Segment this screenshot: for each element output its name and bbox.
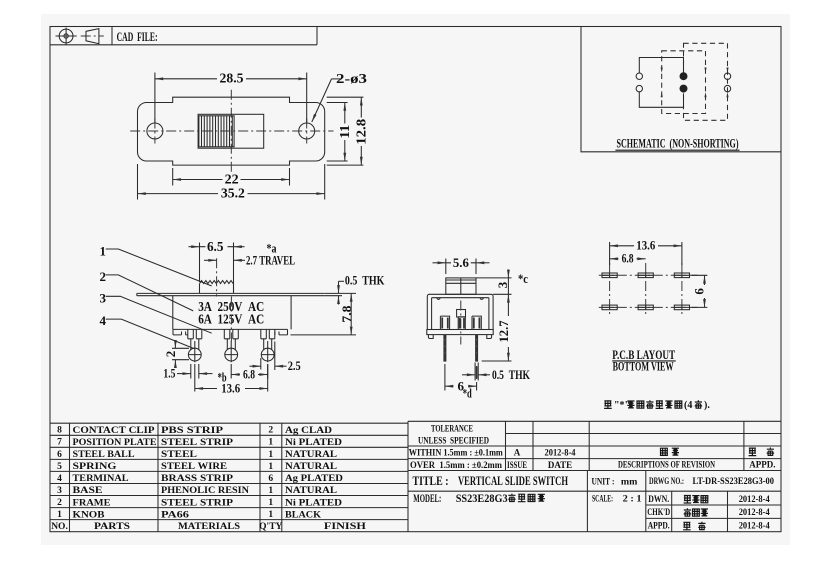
pad r2c2 [638, 305, 653, 310]
dim 13.6 pads [610, 242, 682, 265]
pad r2c3 [674, 305, 689, 310]
pin left [443, 335, 446, 362]
knob centerline [216, 258, 218, 296]
terminal contacts open right [724, 73, 730, 79]
svg-text:DRWG NO.:: DRWG NO.: [649, 476, 684, 486]
svg-text:2012-8-4: 2012-8-4 [739, 507, 770, 517]
svg-text:TOLERANCE: TOLERANCE [431, 424, 473, 434]
svg-text:2: 2 [100, 269, 107, 284]
svg-text:BOTTOM VIEW: BOTTOM VIEW [613, 359, 674, 373]
frame flange [137, 293, 324, 295]
svg-text:1: 1 [268, 486, 273, 496]
svg-text:Q'TY: Q'TY [259, 522, 282, 532]
svg-text:12.8: 12.8 [354, 119, 369, 145]
svg-text:SPRING: SPRING [73, 462, 118, 472]
projection target symbol [59, 29, 73, 43]
dim 12.8 [327, 97, 364, 165]
terminal 3 lug [264, 339, 272, 350]
terminal contacts open left [636, 73, 642, 79]
svg-text:13.6: 13.6 [221, 381, 240, 396]
wire top [639, 58, 683, 74]
svg-text:Ag PLATED: Ag PLATED [285, 474, 343, 484]
note: zhu "*" biaoshi guanjian chicun (4 ge). [604, 400, 612, 408]
svg-text:ISSUE: ISSUE [507, 460, 527, 470]
svg-text:POSITION PLATE: POSITION PLATE [73, 438, 157, 448]
svg-text:VERTICAL SLIDE SWITCH: VERTICAL SLIDE SWITCH [458, 473, 568, 488]
center line [460, 301, 462, 345]
svg-text:DWN.: DWN. [648, 494, 669, 504]
svg-text:1: 1 [268, 462, 273, 472]
pad crossing stubs [602, 273, 690, 310]
dim 5.6 knob [446, 259, 476, 275]
svg-text:(4: (4 [684, 400, 692, 411]
svg-text:MODEL:: MODEL: [413, 491, 441, 505]
revision row: chu ban [661, 448, 668, 455]
svg-text:).: ). [704, 400, 710, 411]
svg-text:1: 1 [268, 498, 273, 508]
svg-text:Ni PLATED: Ni PLATED [285, 498, 342, 508]
dim 6.8 pads [610, 258, 619, 260]
svg-text:WITHIN 1.5mm : ±0.1mm: WITHIN 1.5mm : ±0.1mm [409, 448, 503, 458]
svg-text:Ag CLAD: Ag CLAD [285, 426, 332, 436]
svg-text:DATE: DATE [548, 460, 572, 470]
svg-text:PHENOLIC RESIN: PHENOLIC RESIN [161, 486, 249, 496]
svg-text:NATURAL: NATURAL [285, 462, 337, 472]
pad r1c2 [638, 273, 653, 278]
dim 6 pads [691, 275, 707, 307]
svg-text:UNLESS SPECIFIED: UNLESS SPECIFIED [418, 435, 489, 445]
svg-text:LT-DR-SS23E28G3-00: LT-DR-SS23E28G3-00 [693, 476, 775, 486]
pad r1c3 [674, 273, 689, 278]
svg-text:7.8: 7.8 [339, 305, 354, 323]
terminal 2 root slots and peg [224, 329, 238, 338]
pad r1c1 [602, 273, 617, 278]
svg-text:2: 2 [268, 426, 273, 436]
pad row centerlines [599, 275, 698, 307]
knob position dashed box 1 [662, 51, 706, 114]
frame hook tabs [437, 298, 483, 300]
svg-text:1: 1 [57, 510, 62, 520]
terminal clip middle [458, 317, 465, 330]
svg-text:1.5: 1.5 [163, 366, 175, 381]
CAD FILE title strip [50, 27, 317, 45]
svg-text:7: 7 [57, 438, 62, 448]
svg-text:CONTACT CLIP: CONTACT CLIP [73, 426, 155, 436]
svg-text:STEEL: STEEL [161, 450, 197, 460]
svg-text:3: 3 [495, 281, 510, 288]
svg-text:2-ø3: 2-ø3 [336, 71, 367, 86]
knob side [446, 278, 476, 294]
svg-text:1: 1 [268, 438, 273, 448]
title block grid [408, 421, 781, 518]
dim 0.5 THK flange [324, 293, 356, 295]
svg-text:5: 5 [57, 462, 62, 472]
dim 6.5 knob width [200, 243, 234, 294]
svg-text:*a: *a [267, 241, 277, 256]
svg-text:11: 11 [337, 124, 352, 138]
knob knurl hatch [202, 116, 233, 147]
knob position dashed box 2 [684, 43, 728, 120]
svg-text:4: 4 [100, 313, 107, 328]
body outline [173, 296, 291, 330]
dim 0.5 THK pin [475, 363, 478, 381]
svg-text:SS23E28G3: SS23E28G3 [456, 491, 508, 505]
svg-text:Ni PLATED: Ni PLATED [285, 438, 342, 448]
base side [427, 330, 493, 335]
svg-text:OVER 1.5mm : ±0.2mm: OVER 1.5mm : ±0.2mm [410, 460, 502, 470]
svg-text:PA66: PA66 [161, 510, 189, 520]
svg-text:BASE: BASE [73, 486, 103, 496]
feet [428, 335, 491, 339]
middle centerline lower [230, 297, 232, 342]
dim 12.7 [482, 360, 512, 362]
svg-text:DESCRIPTIONS OF REVISION: DESCRIPTIONS OF REVISION [618, 459, 715, 469]
dim 6 pins [445, 364, 477, 391]
hole centerlines [155, 119, 307, 144]
svg-text:13.6: 13.6 [636, 238, 655, 253]
terminal clip left [440, 316, 449, 329]
dim 35.2 [138, 164, 325, 200]
mounting hole right [299, 123, 315, 139]
slider shaft [457, 310, 466, 318]
drawing frame [50, 27, 781, 532]
svg-text:SCALE:: SCALE: [592, 494, 613, 504]
dim 22 [173, 168, 290, 186]
svg-text:TITLE :: TITLE : [413, 473, 449, 488]
svg-text:2012-8-4: 2012-8-4 [739, 521, 770, 531]
dim 6.8 terminals [231, 364, 268, 379]
svg-text:12.7: 12.7 [496, 320, 511, 342]
knob top view [198, 114, 264, 148]
projection cone symbol [81, 35, 104, 37]
pad column centerlines [610, 263, 682, 317]
svg-text:6.5: 6.5 [207, 239, 224, 254]
svg-text:1: 1 [100, 243, 107, 258]
terminal contacts closed middle [680, 72, 688, 80]
svg-text:5.6: 5.6 [453, 255, 469, 270]
wiper arrowheads [661, 68, 729, 98]
svg-text:FRAME: FRAME [73, 498, 111, 508]
terminal clip right [472, 316, 481, 329]
vertical centerline [230, 90, 232, 172]
svg-text:PBS STRIP: PBS STRIP [161, 426, 223, 436]
svg-text:mm: mm [621, 476, 638, 486]
terminal 2 lug [227, 339, 235, 350]
knob front: sides + knurl break zigzag [200, 284, 234, 294]
svg-text:1: 1 [268, 450, 273, 460]
svg-text:3: 3 [100, 291, 107, 306]
svg-text:0.5 THK: 0.5 THK [492, 367, 531, 382]
svg-text:APPD.: APPD. [648, 521, 670, 531]
svg-text:STEEL BALL: STEEL BALL [73, 450, 135, 460]
svg-text:35.2: 35.2 [221, 185, 245, 200]
svg-text:3: 3 [57, 486, 62, 496]
horizontal centerline [130, 130, 333, 132]
svg-text:*d: *d [463, 386, 473, 401]
svg-text:0.5 THK: 0.5 THK [345, 273, 385, 288]
base [173, 329, 288, 335]
svg-text:22: 22 [225, 171, 239, 186]
pin right [475, 335, 478, 362]
svg-text:4: 4 [57, 474, 62, 484]
body inner walls [432, 298, 489, 330]
svg-text:UNIT :: UNIT : [592, 476, 615, 486]
svg-text:NO.: NO. [51, 522, 68, 532]
svg-text:2012-8-4: 2012-8-4 [739, 494, 770, 504]
svg-text:6: 6 [692, 288, 707, 295]
svg-text:STEEL STRIP: STEEL STRIP [161, 498, 233, 508]
dim 13.6 outer terminals [195, 364, 268, 392]
svg-text:28.5: 28.5 [220, 71, 244, 86]
svg-text:PARTS: PARTS [94, 522, 130, 532]
terminal 1 lug [191, 339, 199, 350]
dim 28.5 [155, 73, 307, 123]
terminal 1 root slots and peg [188, 329, 202, 338]
svg-text:MATERIALS: MATERIALS [178, 522, 240, 532]
svg-text:KNOB: KNOB [73, 510, 106, 520]
terminal 3 root slots and peg [261, 329, 275, 338]
svg-text:1: 1 [268, 510, 273, 520]
svg-text:NATURAL: NATURAL [285, 486, 337, 496]
body side outline [427, 294, 493, 329]
svg-text:6: 6 [57, 450, 62, 460]
svg-text:STEEL STRIP: STEEL STRIP [161, 438, 233, 448]
dim 11 [327, 103, 348, 162]
svg-text:NATURAL: NATURAL [285, 450, 337, 460]
svg-text:STEEL WIRE: STEEL WIRE [161, 462, 227, 472]
top view plate outline [138, 97, 325, 165]
svg-text:2: 2 [163, 351, 178, 358]
dim 2.7 travel [204, 259, 217, 261]
svg-text:8: 8 [57, 426, 62, 436]
svg-text:2: 2 [57, 498, 62, 508]
wire bottom [639, 92, 683, 108]
svg-text:6.8: 6.8 [622, 251, 634, 266]
schematic box [581, 27, 781, 152]
mounting hole left [147, 123, 163, 139]
dim 1.5 terminal width [191, 364, 199, 379]
svg-text:6.8: 6.8 [243, 367, 255, 382]
svg-text:A: A [514, 448, 521, 458]
svg-text:6: 6 [268, 474, 273, 484]
svg-text:APPD.: APPD. [749, 459, 775, 469]
svg-text:FINISH: FINISH [324, 522, 367, 532]
svg-text:2012-8-4: 2012-8-4 [545, 448, 576, 458]
svg-text:2.5: 2.5 [288, 358, 301, 373]
pad r2c1 [602, 305, 617, 310]
svg-text:BLACK: BLACK [285, 510, 322, 520]
svg-text:TERMINAL: TERMINAL [73, 474, 129, 484]
parts table grid [50, 423, 408, 519]
dim 2 lug hole [172, 348, 189, 359]
dim 7.8 [291, 334, 357, 336]
svg-text:BRASS STRIP: BRASS STRIP [161, 474, 233, 484]
svg-text:SCHEMATIC (NON-SHORTING): SCHEMATIC (NON-SHORTING) [617, 137, 739, 151]
dim 3 knob height [476, 278, 512, 294]
svg-text:2 : 1: 2 : 1 [623, 494, 643, 504]
dim 2.5 peg width [261, 342, 275, 371]
svg-text:CHK'D: CHK'D [647, 507, 670, 517]
svg-text:CAD FILE:: CAD FILE: [117, 30, 158, 44]
svg-text:*c: *c [518, 271, 528, 286]
